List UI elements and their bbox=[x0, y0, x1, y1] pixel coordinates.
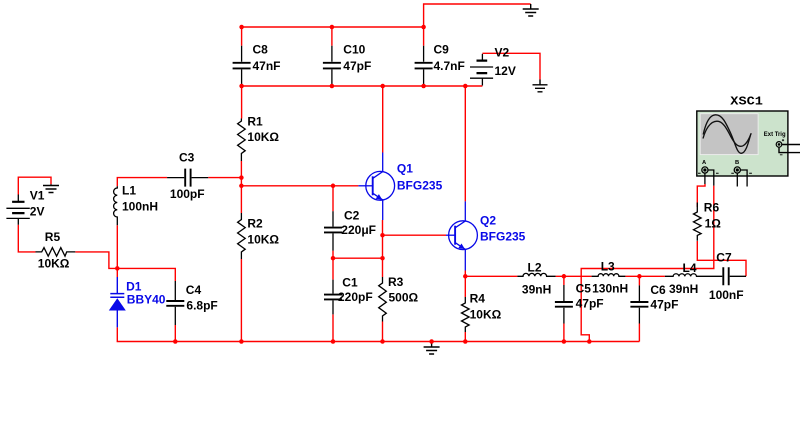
wire L3 to L4 bbox=[625, 275, 665, 277]
wire C2 top bbox=[332, 186, 334, 212]
svg-text:R1: R1 bbox=[247, 114, 263, 128]
svg-text:220μF: 220μF bbox=[341, 223, 376, 237]
capacitor C2 bbox=[324, 211, 342, 250]
wire R2 top bbox=[240, 186, 242, 213]
resistor R3 bbox=[379, 277, 387, 322]
svg-text:R2: R2 bbox=[247, 216, 263, 230]
capacitor C7 bbox=[723, 267, 746, 285]
wire C9 pins bbox=[423, 27, 425, 86]
wire ground rail bbox=[117, 327, 639, 341]
wire Q1 emitter down bbox=[382, 220, 384, 235]
svg-text:47pF: 47pF bbox=[343, 59, 371, 73]
node dots ground rail bbox=[173, 339, 178, 344]
svg-text:47nF: 47nF bbox=[253, 59, 281, 73]
svg-text:R5: R5 bbox=[45, 230, 61, 244]
svg-text:1Ω: 1Ω bbox=[705, 217, 722, 231]
scope terminal A bbox=[702, 167, 708, 173]
inductor L4 bbox=[665, 274, 722, 277]
wire R3 bottom bbox=[382, 322, 384, 342]
svg-text:BFG235: BFG235 bbox=[480, 229, 526, 243]
wire C3 to R1 node bbox=[208, 177, 241, 179]
capacitor C10 bbox=[323, 46, 341, 85]
transistor Q2 bbox=[446, 201, 477, 270]
node dots C3 and base bbox=[239, 175, 244, 180]
svg-text:XSC1: XSC1 bbox=[730, 95, 763, 109]
wire C1 top bbox=[332, 258, 334, 279]
svg-text:39nH: 39nH bbox=[522, 283, 551, 297]
wire C10 pins bbox=[331, 27, 333, 86]
wire C4 bottom bbox=[174, 325, 176, 342]
wire scope A minus to ground bbox=[581, 186, 714, 342]
wire D1 top bbox=[116, 268, 118, 277]
wire C7 right to R6 bbox=[697, 241, 746, 276]
wire Q1 collector bbox=[382, 86, 384, 153]
wire L2 to L3 bbox=[556, 275, 592, 277]
wire V2 plus to ground bbox=[482, 53, 540, 79]
wire R4 top bbox=[464, 276, 466, 297]
wire V1 bottom to R5 bbox=[18, 225, 35, 252]
wire Q1 emitter to Q2 base bbox=[383, 234, 447, 236]
wire node A to L1 bottom bbox=[116, 225, 118, 268]
svg-text:100nH: 100nH bbox=[122, 199, 158, 213]
svg-text:L3: L3 bbox=[601, 260, 615, 274]
svg-text:L2: L2 bbox=[528, 261, 542, 275]
resistor R4 bbox=[462, 297, 470, 332]
inductor L1 bbox=[114, 186, 118, 225]
svg-text:B: B bbox=[735, 160, 739, 166]
ground V2 bbox=[533, 80, 548, 92]
battery V1 bbox=[6, 195, 29, 225]
svg-text:V2: V2 bbox=[495, 46, 510, 60]
wire R2 bottom bbox=[240, 259, 242, 342]
ground top right bbox=[523, 4, 539, 16]
svg-text:47pF: 47pF bbox=[576, 297, 604, 311]
wire R5 to node A bbox=[75, 252, 117, 269]
wire C2 to emitter column bbox=[333, 257, 383, 259]
capacitor C1 bbox=[324, 280, 342, 315]
resistor R1 bbox=[238, 119, 246, 162]
svg-text:10KΩ: 10KΩ bbox=[470, 308, 502, 322]
svg-text:39nH: 39nH bbox=[669, 282, 698, 296]
wire Q2 emitter down bbox=[464, 271, 466, 277]
battery V2 bbox=[470, 54, 493, 86]
svg-text:BFG235: BFG235 bbox=[397, 178, 443, 192]
svg-text:C10: C10 bbox=[343, 42, 365, 56]
svg-text:C6: C6 bbox=[650, 283, 666, 297]
transistor Q1 bbox=[358, 153, 394, 221]
node dots filter line bbox=[463, 274, 468, 279]
scope terminal Ext Trig bbox=[776, 142, 782, 148]
svg-text:C3: C3 bbox=[179, 150, 195, 164]
wire C6 pins bbox=[638, 276, 640, 341]
node dots top rail bbox=[239, 25, 244, 30]
svg-text:10KΩ: 10KΩ bbox=[247, 233, 279, 247]
svg-text:BBY40: BBY40 bbox=[127, 293, 166, 307]
svg-text:C2: C2 bbox=[344, 209, 360, 223]
wire Q2 collector bbox=[464, 86, 466, 201]
svg-text:R6: R6 bbox=[704, 201, 720, 215]
svg-text:C1: C1 bbox=[342, 275, 358, 289]
svg-text:100nF: 100nF bbox=[709, 288, 744, 302]
svg-text:220pF: 220pF bbox=[338, 290, 373, 304]
scope terminal B bbox=[734, 167, 740, 173]
svg-text:Ext Trig: Ext Trig bbox=[764, 132, 786, 138]
svg-text:C7: C7 bbox=[716, 251, 732, 265]
resistor R5 bbox=[36, 248, 76, 257]
wire C2 bottom bbox=[332, 251, 334, 259]
inductor L3 bbox=[592, 274, 626, 277]
capacitor C3 bbox=[167, 169, 208, 187]
ground bottom center bbox=[424, 342, 440, 355]
resistor R2 bbox=[238, 213, 246, 259]
svg-text:12V: 12V bbox=[495, 64, 516, 78]
wire C8 pins bbox=[241, 27, 243, 86]
svg-text:2V: 2V bbox=[30, 205, 45, 219]
svg-text:C9: C9 bbox=[434, 42, 450, 56]
wire supply rail y86 bbox=[242, 85, 483, 87]
wire L1 top to C3 bbox=[117, 178, 167, 187]
svg-text:L1: L1 bbox=[122, 184, 136, 198]
svg-text:V1: V1 bbox=[30, 189, 45, 203]
svg-text:6.8pF: 6.8pF bbox=[186, 298, 217, 312]
capacitor C6 bbox=[630, 285, 648, 323]
node dot A bbox=[115, 266, 120, 271]
wire emitter node down bbox=[382, 235, 384, 258]
svg-text:R4: R4 bbox=[470, 292, 486, 306]
svg-text:500Ω: 500Ω bbox=[389, 290, 419, 304]
inductor L2 bbox=[517, 273, 555, 276]
wire node C3 to base node bbox=[240, 178, 242, 186]
svg-text:130nH: 130nH bbox=[592, 281, 628, 295]
svg-text:C4: C4 bbox=[186, 283, 202, 297]
svg-text:100pF: 100pF bbox=[170, 187, 205, 201]
svg-text:R3: R3 bbox=[388, 275, 404, 289]
svg-text:47pF: 47pF bbox=[650, 297, 678, 311]
wire R1 bottom to node bbox=[240, 161, 242, 178]
svg-text:C5: C5 bbox=[576, 281, 592, 295]
svg-text:4.7nF: 4.7nF bbox=[434, 59, 465, 73]
capacitor C5 bbox=[555, 285, 573, 324]
capacitor C9 bbox=[415, 46, 433, 85]
capacitor C4 bbox=[166, 281, 184, 325]
svg-text:D1: D1 bbox=[126, 279, 142, 293]
wire top ground run bbox=[424, 4, 531, 27]
wire emitter to L2 bbox=[465, 275, 517, 277]
svg-text:10KΩ: 10KΩ bbox=[38, 256, 70, 270]
svg-text:L4: L4 bbox=[683, 261, 697, 275]
ground V1 bbox=[43, 184, 59, 192]
diode D1 bbox=[109, 277, 126, 327]
svg-text:Q1: Q1 bbox=[397, 161, 413, 175]
oscilloscope XSC1 bbox=[697, 95, 800, 187]
wire R1 top bbox=[241, 86, 243, 119]
wire C1 bottom bbox=[332, 314, 334, 341]
wire V1 top to ground bbox=[18, 177, 51, 194]
svg-text:Q2: Q2 bbox=[480, 214, 496, 228]
wire capacitor top rail bbox=[242, 26, 424, 28]
wire R6 top to scope A plus bbox=[697, 184, 705, 207]
wire R4 bottom bbox=[464, 332, 466, 342]
capacitor C8 bbox=[233, 46, 251, 85]
wire R3 top bbox=[382, 258, 384, 277]
resistor R6 bbox=[694, 203, 702, 241]
svg-text:C8: C8 bbox=[253, 42, 269, 56]
svg-text:10KΩ: 10KΩ bbox=[247, 130, 279, 144]
node dots emitter net bbox=[380, 233, 385, 238]
node dots supply rail bbox=[239, 84, 244, 89]
wire node A to C4 bbox=[117, 268, 175, 281]
wire Q1 base net bbox=[241, 185, 358, 187]
wire C5 pins bbox=[563, 276, 565, 341]
